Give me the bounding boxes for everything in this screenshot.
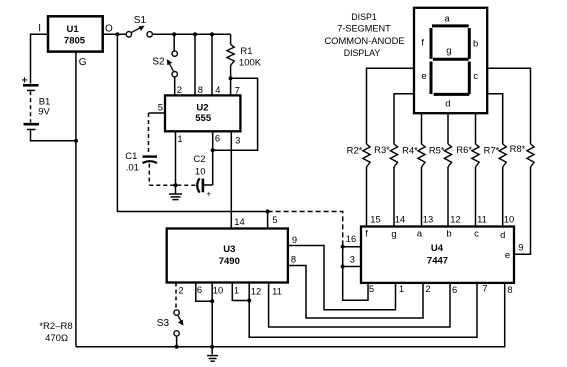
wire resistor at x=475.5 down to U4 top pin xyxy=(475,167,477,227)
wire C2 right plate to pin6 column xyxy=(204,184,213,186)
svg-text:U2: U2 xyxy=(196,102,208,113)
wire resistor at x=394 down to U4 top pin xyxy=(393,167,395,227)
junction VCC rail to S2 branch xyxy=(172,32,176,36)
svg-text:1: 1 xyxy=(234,284,239,295)
junction S3 / ground rail xyxy=(175,345,179,349)
wire display bottom pin to R5 xyxy=(447,113,449,144)
wire battery internal (dashed) xyxy=(30,91,32,122)
wire R8 down to U4 pin 9 xyxy=(514,167,531,254)
svg-text:7490: 7490 xyxy=(219,256,240,267)
wire U3 pin 8 to U4 pin 2 xyxy=(288,266,423,319)
battery B1 cell2 short plate xyxy=(27,129,36,131)
wire resistor at x=421.5 down to U4 top pin xyxy=(421,167,423,227)
svg-text:1: 1 xyxy=(399,283,404,294)
segment d bar xyxy=(434,93,470,96)
timer U2 555 box xyxy=(165,95,240,131)
wire VCC to U2 pin 8 xyxy=(194,34,196,95)
wire U1 output to S1 xyxy=(103,33,127,35)
svg-text:7805: 7805 xyxy=(64,36,86,47)
svg-text:DISP1: DISP1 xyxy=(351,12,377,22)
svg-text:8: 8 xyxy=(291,253,296,264)
wire battery negative to ground rail xyxy=(31,131,77,141)
svg-text:e: e xyxy=(421,71,426,82)
wire U2 pin 5 stub xyxy=(149,112,166,114)
svg-text:+: + xyxy=(206,189,211,198)
svg-text:b: b xyxy=(446,227,451,238)
svg-text:16: 16 xyxy=(346,233,356,244)
wire U3 pin 10 to ground xyxy=(211,283,213,355)
svg-text:100K: 100K xyxy=(239,58,262,69)
wire VCC rail corner into R1 xyxy=(230,34,232,44)
svg-text:O: O xyxy=(105,23,113,34)
svg-text:3: 3 xyxy=(350,253,355,264)
junction R1 bottom node xyxy=(229,76,233,80)
svg-text:d: d xyxy=(445,99,450,110)
wire resistor at x=366.5 down to U4 top pin xyxy=(366,167,368,227)
wire VCC down U4 left side xyxy=(343,247,368,301)
junction pin 10 / ground rail xyxy=(210,345,214,349)
wire S3 to ground rail xyxy=(176,336,178,347)
wire stub U4 pin 3 xyxy=(343,266,361,268)
wire U2 pin 3 output to U3 pin 14 xyxy=(230,131,232,228)
svg-text:1: 1 xyxy=(177,133,182,144)
capacitor C2 right plate xyxy=(202,179,205,193)
wire U3 pin 9 to U4 pin 1 xyxy=(288,246,396,310)
svg-text:R8*: R8* xyxy=(510,143,526,154)
junction node VCC at U1 output xyxy=(115,32,119,36)
svg-text:S3: S3 xyxy=(157,318,170,329)
svg-text:U3: U3 xyxy=(223,244,235,255)
junction VCC rail to U3 pin 5 xyxy=(266,209,270,213)
svg-text:R1: R1 xyxy=(240,46,252,57)
svg-text:9V: 9V xyxy=(38,106,50,117)
wire U1 input to battery positive xyxy=(31,34,49,83)
svg-text:4: 4 xyxy=(215,84,220,95)
wire R1 node to U2 pin 6 (right loop) xyxy=(213,78,258,150)
svg-text:2: 2 xyxy=(425,283,430,294)
svg-text:DISPLAY: DISPLAY xyxy=(344,48,381,58)
display DISP1 box xyxy=(414,8,487,113)
wire display segment c side to R7 xyxy=(487,94,503,144)
wire S2 to U2 pin 2 xyxy=(174,77,176,96)
switch S1 arm with arrowhead xyxy=(131,26,144,33)
svg-text:f: f xyxy=(421,37,424,48)
svg-text:C1: C1 xyxy=(125,151,137,162)
wire C1 bottom down (dashed) xyxy=(148,164,150,186)
wire stub U4 pin 16 xyxy=(343,246,361,248)
svg-text:a: a xyxy=(444,13,450,24)
svg-text:a: a xyxy=(417,227,423,238)
counter U3 7490 box xyxy=(167,229,288,283)
wire U1 G pin down ground rail left xyxy=(75,52,77,347)
svg-text:f: f xyxy=(365,227,368,238)
resistor R2 (current limit) xyxy=(363,144,370,167)
wire U3 pin 1 to pin 12 node xyxy=(232,283,249,301)
wire display segment e to R3 xyxy=(394,94,414,144)
switch S3 arm with arrowhead xyxy=(178,316,184,326)
svg-text:R5*: R5* xyxy=(429,144,445,155)
segment e bar xyxy=(430,62,433,95)
svg-text:2: 2 xyxy=(178,284,183,295)
junction VCC rail to U2 pin 8 branch xyxy=(193,32,197,36)
svg-text:C2: C2 xyxy=(193,154,205,165)
svg-text:13: 13 xyxy=(423,213,433,224)
svg-text:555: 555 xyxy=(195,113,212,124)
wire display segment b side to R8 xyxy=(487,68,530,144)
svg-text:7: 7 xyxy=(235,85,240,96)
resistor R5 (current limit) xyxy=(444,144,451,167)
junction U2 pin 6 node xyxy=(211,148,215,152)
resistor R3 (current limit) xyxy=(390,144,397,167)
wire U3 pin 11 to U4 pin 6 xyxy=(269,283,450,328)
svg-text:R2*: R2* xyxy=(347,144,363,155)
switch S1 pole contact xyxy=(126,32,131,37)
svg-text:14: 14 xyxy=(234,216,244,227)
svg-text:b: b xyxy=(473,38,478,49)
svg-text:10: 10 xyxy=(213,284,223,295)
svg-text:g: g xyxy=(446,45,451,56)
switch S2 arm with arrowhead xyxy=(167,59,174,71)
svg-text:G: G xyxy=(79,57,87,68)
svg-text:c: c xyxy=(473,71,478,82)
svg-text:10: 10 xyxy=(504,213,514,224)
wire display segment f to R2 xyxy=(367,68,415,144)
wire display bottom pin to R4 xyxy=(421,113,423,144)
wire VCC rail to U4 (dashed) xyxy=(268,212,343,247)
battery B1 cell2 long plate xyxy=(24,123,40,126)
wire VCC to S2 xyxy=(173,34,175,51)
voltage regulator U1 box xyxy=(48,16,103,51)
svg-text:.01: .01 xyxy=(126,163,139,174)
segment b bar xyxy=(468,28,471,59)
junction VCC to U4 pin 3 xyxy=(341,264,345,268)
svg-text:R3*: R3* xyxy=(374,144,390,155)
svg-text:8: 8 xyxy=(198,84,203,95)
wire display bottom pin to R6 xyxy=(475,113,477,144)
svg-text:R7*: R7* xyxy=(484,144,500,155)
capacitor C2 left plate (curved) xyxy=(197,178,199,192)
svg-text:8: 8 xyxy=(507,284,512,295)
svg-text:5: 5 xyxy=(369,283,374,294)
wire U3 pin 12 to U4 pin 7 xyxy=(249,283,477,338)
svg-text:7: 7 xyxy=(482,283,487,294)
wire resistor at x=448 down to U4 top pin xyxy=(447,167,449,227)
switch S2 upper contact xyxy=(172,51,177,56)
svg-text:12: 12 xyxy=(251,285,261,296)
junction VCC to U4 pin 16 xyxy=(341,245,345,249)
svg-text:U4: U4 xyxy=(431,243,444,254)
svg-text:S2: S2 xyxy=(152,57,165,68)
wire U3 pin 6 to pin 10 node xyxy=(196,283,212,302)
wire ground bus C1 to C2 (dashed) xyxy=(149,184,196,186)
capacitor C1 bottom plate (curved) xyxy=(143,161,158,163)
svg-text:7447: 7447 xyxy=(427,256,448,267)
svg-text:U1: U1 xyxy=(67,24,80,35)
svg-text:470Ω: 470Ω xyxy=(45,333,68,344)
switch S3 lower contact xyxy=(174,331,179,336)
wire U2 pin 1 to ground xyxy=(175,131,177,185)
svg-text:e: e xyxy=(505,249,510,260)
svg-text:12: 12 xyxy=(450,213,460,224)
battery B1 cell1 short plate xyxy=(27,89,35,91)
svg-text:c: c xyxy=(474,227,479,238)
switch S2 lower contact xyxy=(172,72,177,77)
svg-text:6: 6 xyxy=(452,284,457,295)
resistor R1 xyxy=(227,45,234,66)
wire VCC to U2 pin 4 xyxy=(211,34,213,95)
junction VCC rail to U2 pin 4 branch xyxy=(210,32,214,36)
svg-text:6: 6 xyxy=(215,133,220,144)
switch S3 upper contact xyxy=(174,310,179,315)
svg-text:COMMON-ANODE: COMMON-ANODE xyxy=(324,35,404,46)
wire VCC drop to lower rail xyxy=(117,34,267,211)
switch S1 throw contact xyxy=(147,32,152,37)
ground symbol below U2 pin 1 xyxy=(169,186,182,200)
svg-text:*R2–R8: *R2–R8 xyxy=(39,321,72,332)
svg-text:2: 2 xyxy=(177,84,182,95)
svg-text:11: 11 xyxy=(272,285,282,296)
resistor R7 (current limit) xyxy=(499,144,506,167)
svg-text:5: 5 xyxy=(272,214,277,225)
decoder U4 7447 box xyxy=(361,227,514,283)
svg-text:R4*: R4* xyxy=(402,144,418,155)
svg-text:14: 14 xyxy=(395,213,405,224)
segment g bar xyxy=(433,58,469,61)
svg-text:d: d xyxy=(500,229,505,240)
junction U3 pin 1/12 xyxy=(247,298,251,302)
segment c bar xyxy=(468,62,471,95)
wire U3 pin 2 to S3 (dashed) xyxy=(175,283,177,310)
wire R1 bottom to U2 pin 7 xyxy=(230,65,232,95)
junction battery negative / G rail xyxy=(74,139,78,143)
svg-text:R6*: R6* xyxy=(456,144,472,155)
svg-text:I: I xyxy=(38,23,41,34)
svg-text:10: 10 xyxy=(195,166,206,177)
segment a bar xyxy=(432,24,469,27)
resistor R4 (current limit) xyxy=(418,144,425,167)
wire ground rail bottom to U4 pin 8 xyxy=(76,283,505,347)
wire S1 to VCC top rail xyxy=(152,33,230,35)
wire U2 pin 6 down to C2 xyxy=(212,131,214,185)
resistor R6 (current limit) xyxy=(472,144,479,167)
segment f bar xyxy=(430,28,433,59)
wire U3 pin 5 from rail xyxy=(267,212,269,229)
svg-text:15: 15 xyxy=(370,213,380,224)
wire resistor at x=502.7 down to U4 top pin xyxy=(502,167,504,227)
svg-text:9: 9 xyxy=(518,242,523,253)
svg-text:5: 5 xyxy=(158,102,163,113)
junction U3 pin 6/10 xyxy=(210,299,214,303)
ground symbol bottom xyxy=(207,356,218,362)
wire pin 5 down to C1 (dashed) xyxy=(148,113,150,155)
svg-text:g: g xyxy=(391,228,396,239)
svg-text:7-SEGMENT: 7-SEGMENT xyxy=(337,24,391,34)
junction U2 pin1 / C1 / C2 ground node xyxy=(173,183,177,187)
battery B1 cell1 long plate xyxy=(23,84,39,87)
svg-text:9: 9 xyxy=(292,234,297,245)
svg-text:S1: S1 xyxy=(134,15,147,26)
svg-text:3: 3 xyxy=(235,134,240,145)
capacitor C1 top plate xyxy=(143,155,158,157)
svg-text:6: 6 xyxy=(197,284,202,295)
svg-text:11: 11 xyxy=(477,213,487,224)
resistor R8 (current limit) xyxy=(527,144,534,167)
